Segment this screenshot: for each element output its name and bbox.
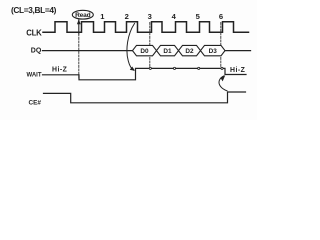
svg-text:3: 3 xyxy=(148,12,152,21)
svg-text:1: 1 xyxy=(100,12,105,21)
wire CE# waveform xyxy=(44,92,246,103)
svg-text:6: 6 xyxy=(219,12,223,21)
sampling circle at edge 5 xyxy=(198,67,200,69)
svg-text:2: 2 xyxy=(125,12,129,21)
data bubble D0 xyxy=(133,45,157,55)
svg-text:D2: D2 xyxy=(185,48,194,55)
svg-text:Read: Read xyxy=(75,12,90,19)
svg-text:CLK: CLK xyxy=(26,28,42,37)
data bubble D2 xyxy=(179,45,201,55)
sampling circle at edge 6 xyxy=(221,67,223,69)
wire CLK waveform xyxy=(43,22,249,33)
dashed line at clock edge 3 xyxy=(149,23,151,69)
svg-text:DQ: DQ xyxy=(31,47,42,54)
svg-text:D0: D0 xyxy=(140,48,149,55)
arrow up to Read oval xyxy=(78,20,80,34)
wire DQ idle right xyxy=(225,50,251,52)
curve arrow from CE# rise to WAIT Hi-Z xyxy=(219,76,227,91)
svg-text:Hi-Z: Hi-Z xyxy=(52,67,68,74)
dashed line at clock edge 6 xyxy=(220,23,222,68)
data bubble D3 xyxy=(201,45,226,55)
curve arrow from clock edge 2 to WAIT rise xyxy=(127,24,135,71)
Read command oval xyxy=(72,10,93,19)
svg-text:WAIT: WAIT xyxy=(27,72,42,78)
svg-text:Hi-Z: Hi-Z xyxy=(230,67,246,74)
svg-text:CE#: CE# xyxy=(29,99,42,106)
svg-text:D3: D3 xyxy=(209,48,218,55)
svg-text:D1: D1 xyxy=(163,48,172,55)
svg-text:4: 4 xyxy=(172,12,177,21)
data bubble D1 xyxy=(157,45,179,55)
dashed line below Read arrow xyxy=(78,34,80,79)
svg-text:(CL=3,BL=4): (CL=3,BL=4) xyxy=(11,5,57,15)
sampling circle at edge 4 xyxy=(173,67,175,69)
wire DQ idle left xyxy=(43,50,133,52)
sampling circle at edge 3 xyxy=(149,67,151,69)
svg-text:5: 5 xyxy=(196,12,201,21)
wire WAIT waveform xyxy=(43,68,247,79)
